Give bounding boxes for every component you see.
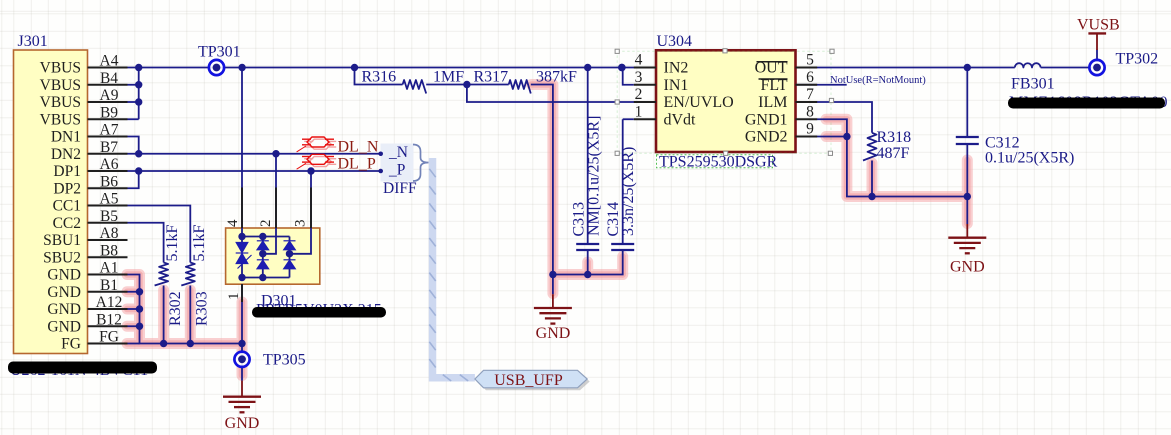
svg-text:FG: FG: [61, 336, 81, 353]
svg-text:GND: GND: [536, 325, 571, 342]
svg-text:0.1u/25(X5R): 0.1u/25(X5R): [985, 150, 1074, 167]
svg-text:U304: U304: [657, 33, 693, 50]
svg-text:4: 4: [225, 219, 241, 227]
svg-text:GND: GND: [950, 259, 985, 276]
svg-text:R303: R303: [194, 291, 211, 326]
svg-text:9: 9: [806, 121, 814, 138]
svg-text:SBU1: SBU1: [43, 232, 81, 249]
svg-text:387kF: 387kF: [536, 69, 577, 86]
svg-text:DN2: DN2: [51, 146, 81, 163]
svg-text:DL_P: DL_P: [338, 155, 376, 172]
svg-text:3: 3: [293, 220, 309, 228]
svg-text:B9: B9: [100, 104, 118, 121]
svg-text:A4: A4: [100, 53, 119, 70]
svg-text:GND: GND: [47, 318, 81, 335]
svg-text:_N: _N: [388, 144, 408, 161]
svg-text:J301: J301: [18, 33, 48, 50]
svg-text:NM[0.1u/25(X5R]: NM[0.1u/25(X5R]: [586, 116, 603, 236]
svg-text:VBUS: VBUS: [40, 60, 81, 77]
svg-text:R316: R316: [362, 69, 397, 86]
svg-text:USB_UFP: USB_UFP: [494, 372, 563, 389]
svg-text:IN2: IN2: [664, 60, 689, 77]
svg-text:ILM: ILM: [758, 94, 787, 111]
svg-text:DN1: DN1: [51, 129, 81, 146]
svg-text:GND2: GND2: [745, 129, 788, 146]
svg-text:B4: B4: [100, 70, 118, 87]
svg-text:3: 3: [635, 69, 643, 86]
svg-text:_P: _P: [388, 161, 405, 178]
svg-text:GND: GND: [47, 284, 81, 301]
svg-text:DL_N: DL_N: [338, 139, 379, 156]
svg-text:1: 1: [226, 293, 242, 301]
svg-text:4: 4: [635, 52, 643, 69]
svg-text:GND: GND: [225, 415, 260, 432]
svg-text:GND: GND: [47, 301, 81, 318]
svg-text:DIFF: DIFF: [383, 180, 417, 197]
svg-text:DP1: DP1: [53, 163, 81, 180]
svg-text:GND: GND: [47, 267, 81, 284]
svg-text:TP302: TP302: [1116, 51, 1159, 68]
svg-text:8: 8: [806, 103, 814, 120]
svg-text:A12: A12: [96, 294, 123, 311]
svg-text:3.3n/25(X5R): 3.3n/25(X5R): [620, 147, 637, 236]
svg-text:SBU2: SBU2: [43, 249, 81, 266]
svg-text:A5: A5: [100, 191, 119, 208]
svg-text:TP305: TP305: [263, 352, 306, 369]
svg-text:R302: R302: [167, 291, 184, 326]
svg-text:A9: A9: [100, 87, 119, 104]
svg-text:A7: A7: [100, 122, 119, 139]
svg-text:A6: A6: [100, 156, 119, 173]
svg-text:CC2: CC2: [53, 215, 81, 232]
svg-text:TPS259530DSGR: TPS259530DSGR: [659, 154, 778, 171]
svg-text:DP2: DP2: [53, 180, 81, 197]
svg-text:VBUS: VBUS: [40, 94, 81, 111]
svg-text:dVdt: dVdt: [664, 111, 697, 128]
svg-text:5.1kF: 5.1kF: [191, 225, 208, 262]
svg-text:2: 2: [635, 86, 643, 103]
svg-text:A1: A1: [100, 260, 119, 277]
svg-text:VUSB: VUSB: [1077, 17, 1120, 34]
svg-text:B7: B7: [100, 139, 118, 156]
svg-text:B6: B6: [100, 173, 118, 190]
svg-text:R317: R317: [474, 69, 509, 86]
svg-text:B1: B1: [100, 277, 118, 294]
svg-text:FG: FG: [99, 329, 119, 346]
svg-text:1: 1: [635, 103, 643, 120]
svg-text:B5: B5: [100, 208, 118, 225]
svg-text:B12: B12: [96, 311, 122, 328]
svg-text:FB301: FB301: [1011, 76, 1055, 93]
svg-text:IN1: IN1: [664, 77, 689, 94]
svg-text:R318: R318: [877, 129, 912, 146]
svg-text:VBUS: VBUS: [40, 77, 81, 94]
svg-text:7: 7: [806, 86, 814, 103]
svg-text:CC1: CC1: [53, 198, 81, 215]
svg-text:GND1: GND1: [745, 111, 788, 128]
svg-text:6: 6: [806, 69, 814, 86]
svg-text:487F: 487F: [877, 145, 910, 162]
svg-text:5: 5: [806, 52, 814, 69]
svg-text:VBUS: VBUS: [40, 111, 81, 128]
svg-text:5.1kF: 5.1kF: [164, 225, 181, 262]
svg-text:A8: A8: [100, 225, 119, 242]
svg-text:1MF: 1MF: [433, 69, 464, 86]
svg-text:NotUse(R=NotMount): NotUse(R=NotMount): [830, 75, 926, 86]
svg-text:EN/UVLO: EN/UVLO: [664, 94, 734, 111]
svg-text:TP301: TP301: [198, 44, 241, 61]
svg-text:2: 2: [258, 220, 274, 228]
svg-text:B8: B8: [100, 242, 118, 259]
